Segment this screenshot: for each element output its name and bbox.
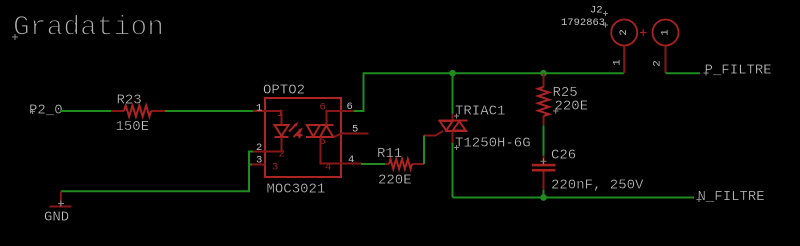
svg-text:6: 6 <box>347 101 353 113</box>
ground GND symbol <box>60 191 62 206</box>
resistor R11 <box>385 163 424 165</box>
optocoupler OPTO2 body <box>265 98 341 177</box>
wire stub to OPTO2 pin 3 <box>249 164 252 166</box>
wire R11 to TRIAC1 gate <box>423 136 425 165</box>
wire from OPTO2 pins 2,3 to GND <box>61 152 253 192</box>
junction on bottom rail at C26 branch <box>540 194 547 201</box>
svg-text:GND: GND <box>44 210 69 226</box>
resistor R25 <box>543 73 545 125</box>
wire from OPTO2 pin 6 to top rail <box>354 73 624 111</box>
wire R25 to C26 <box>543 125 545 155</box>
svg-text:Gradation: Gradation <box>13 13 164 44</box>
wire C26 to bottom rail <box>543 190 545 198</box>
title origin cross <box>12 34 18 40</box>
triac detector inside OPTO2 <box>306 125 334 137</box>
junction on top rail at R25 branch <box>540 70 547 77</box>
svg-text:N_FILTRE: N_FILTRE <box>698 189 765 205</box>
pin 1 of OPTO2 <box>253 110 265 112</box>
svg-text:MOC3021: MOC3021 <box>267 182 326 198</box>
svg-text:3: 3 <box>256 155 262 167</box>
svg-text:5: 5 <box>352 124 358 136</box>
pin 6 of OPTO2 <box>341 110 361 112</box>
svg-text:3: 3 <box>272 162 278 174</box>
bottom rail wire <box>453 197 695 199</box>
svg-text:R23: R23 <box>117 93 142 109</box>
resistor R23 <box>111 110 165 112</box>
svg-text:T1250H-6G: T1250H-6G <box>455 136 531 152</box>
gate lead of TRIAC1 <box>424 131 443 136</box>
junction on top rail at TRIAC1 branch <box>449 70 456 77</box>
svg-text:TRIAC1: TRIAC1 <box>455 104 505 120</box>
svg-text:1: 1 <box>612 59 624 65</box>
svg-text:OPTO2: OPTO2 <box>263 83 305 99</box>
pin 2 of OPTO2 <box>253 151 265 153</box>
connector J2 pad 2 <box>611 20 637 46</box>
origin cross of J2 <box>640 29 647 35</box>
svg-text:4: 4 <box>348 154 354 166</box>
svg-text:C26: C26 <box>551 148 576 164</box>
pin 1 stub of J2 pad 2 <box>623 46 625 74</box>
svg-text:J2: J2 <box>590 5 603 17</box>
light coupling arrows inside OPTO2 <box>289 125 296 132</box>
svg-text:150E: 150E <box>116 119 150 135</box>
LED emitter inside OPTO2 <box>265 111 282 125</box>
connector J2 pad 1 <box>653 20 679 46</box>
svg-text:1: 1 <box>256 103 262 115</box>
svg-text:220nF, 250V: 220nF, 250V <box>551 178 644 194</box>
svg-text:2: 2 <box>256 142 262 154</box>
wire R23 to opto pin1 <box>165 110 254 112</box>
svg-text:R11: R11 <box>377 146 402 162</box>
capacitor C26 <box>543 156 545 164</box>
wire P2_0 to R23 <box>60 110 111 112</box>
svg-text:P2_0: P2_0 <box>29 103 63 119</box>
triac TRIAC1 symbol <box>452 114 454 122</box>
svg-text:1: 1 <box>660 29 672 35</box>
wire OPTO2 pin 4 to R11 <box>361 163 385 165</box>
svg-text:220E: 220E <box>555 99 589 115</box>
wire top rail down to TRIAC1 <box>452 73 454 113</box>
svg-text:1792863: 1792863 <box>561 17 605 29</box>
svg-text:6: 6 <box>320 102 326 114</box>
pin 3 of OPTO2 <box>252 164 266 166</box>
svg-text:P_FILTRE: P_FILTRE <box>705 63 772 79</box>
pin 4 of OPTO2 <box>341 163 361 165</box>
svg-text:220E: 220E <box>378 173 412 189</box>
pin 2 stub of J2 pad 1 <box>665 46 667 74</box>
pin 5 of OPTO2 <box>341 133 369 135</box>
wire pad1 to P_FILTRE <box>666 72 701 74</box>
svg-text:2: 2 <box>652 60 664 66</box>
wire TRIAC1 down to bottom rail <box>452 143 454 198</box>
svg-text:2: 2 <box>618 29 630 35</box>
